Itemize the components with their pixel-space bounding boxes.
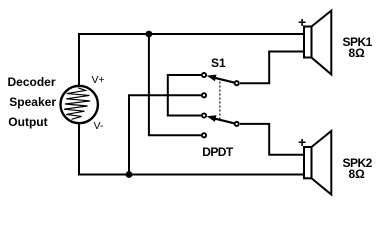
- switch S1 common C2: [235, 122, 239, 126]
- svg-text:V+: V+: [92, 74, 105, 86]
- wire: bottom bus up to switch terminal T2: [129, 95, 201, 174]
- speaker SPK2 cone: [312, 131, 332, 195]
- wire: top bus down to switch terminal T4: [149, 34, 201, 135]
- wire: tie between switch throws T1 and T3: [168, 75, 201, 116]
- svg-text:Decoder: Decoder: [8, 75, 56, 89]
- switch S1 mechanical linkage (dashed): [219, 82, 221, 120]
- source V1 waveform squiggle: [64, 88, 90, 120]
- svg-text:8Ω: 8Ω: [349, 46, 366, 60]
- junction: top bus / T4 branch: [146, 31, 153, 38]
- switch S1 lever pole 2 (C2 to T3): [207, 115, 235, 123]
- wire: source V+ up and top bus to SPK1 + terminal: [79, 34, 304, 88]
- speaker SPK1 cone: [312, 11, 332, 75]
- switch S1 terminal T2: [202, 93, 206, 97]
- switch S1 lever pole 1 (C1 to T1): [207, 75, 235, 83]
- svg-text:8Ω: 8Ω: [349, 167, 366, 181]
- svg-text:V-: V-: [94, 120, 104, 132]
- svg-text:+: +: [298, 134, 306, 150]
- junction: bottom bus / T2 branch: [126, 171, 133, 178]
- wire: switch common C2 to SPK2 + terminal: [240, 124, 304, 155]
- svg-text:+: +: [298, 14, 306, 30]
- svg-text:S1: S1: [211, 56, 226, 70]
- source V1: decoder speaker output (circle): [60, 86, 97, 123]
- switch S1 terminal T3: [202, 113, 206, 117]
- switch S1 terminal T1: [202, 73, 206, 77]
- svg-text:Output: Output: [8, 115, 47, 129]
- switch S1 terminal T4: [202, 133, 206, 137]
- wire: source V- down and bottom bus to SPK2 - terminal: [79, 121, 304, 175]
- svg-text:Speaker: Speaker: [9, 95, 56, 109]
- speaker SPK1 driver rectangle: [304, 27, 312, 58]
- wire: switch common C1 to SPK1 - terminal: [240, 52, 304, 84]
- speaker SPK2 driver rectangle: [304, 147, 312, 178]
- switch S1 common C1: [235, 81, 239, 85]
- svg-text:DPDT: DPDT: [202, 145, 234, 159]
